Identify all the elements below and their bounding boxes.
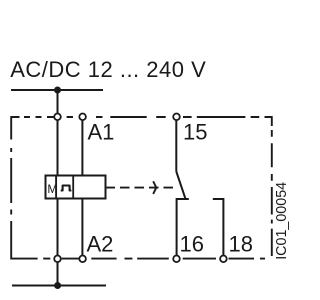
dashed enclosure box bottom edge — [11, 258, 265, 260]
svg-text:16: 16 — [180, 232, 204, 257]
wire from terminal A1 down to coil box — [81, 121, 83, 176]
terminal circle 15 — [173, 114, 180, 121]
dashed enclosure box top edge — [11, 116, 272, 118]
dashed enclosure box right edge — [271, 116, 273, 256]
dashed actuation link from coil to contact — [106, 187, 175, 189]
svg-text:IC01_00054: IC01_00054 — [274, 182, 290, 260]
terminal circle 18 — [220, 255, 227, 262]
terminal circle 16 — [173, 255, 180, 262]
coil block K1 rectangle — [46, 176, 106, 199]
junction dot bottom rail — [54, 282, 61, 289]
junction dot top rail — [54, 87, 61, 94]
wire from coil box down to terminal A2 — [81, 199, 83, 256]
wire from bottom terminal to bottom rail — [57, 263, 59, 286]
wire from terminal 15 down to contact pivot — [175, 121, 177, 172]
wire top supply rail — [11, 89, 103, 91]
wire from coil box down to bottom terminal x 57.5 — [57, 199, 59, 256]
wire bottom supply rail — [12, 285, 106, 287]
contact 18 fixed contact hook and wire — [213, 199, 224, 255]
svg-text:18: 18 — [229, 232, 253, 257]
svg-text:A1: A1 — [88, 120, 115, 145]
terminal circle A2 — [79, 255, 86, 262]
actuation arrow head — [153, 181, 156, 194]
coil block divider 2 — [72, 176, 74, 199]
pulse symbol inside coil block — [61, 186, 72, 191]
terminal circle top x57.5 — [54, 114, 61, 121]
terminal circle bottom x57.5 — [54, 255, 61, 262]
svg-text:AC/DC 12 ... 240 V: AC/DC 12 ... 240 V — [10, 57, 206, 82]
contact blade of changeover switch — [176, 172, 185, 200]
wire from top rail down to terminal at x 57.5 — [57, 90, 59, 113]
svg-text:A2: A2 — [87, 232, 114, 257]
svg-text:15: 15 — [183, 120, 207, 145]
terminal circle A1 — [79, 114, 86, 121]
svg-text:M: M — [47, 182, 57, 196]
coil block divider 1 — [55, 176, 57, 199]
contact 16 fixed contact hook and wire — [177, 199, 189, 255]
wire inside box from terminal 57.5 down to coil box — [57, 121, 59, 176]
dashed enclosure box left edge — [10, 116, 12, 259]
